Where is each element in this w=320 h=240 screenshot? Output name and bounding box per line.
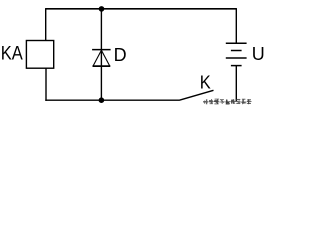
node bottom junction [99,97,105,103]
battery U [226,43,247,65]
wire right vertical lower [235,66,237,102]
watermark text [203,99,251,104]
svg-text:K: K [200,72,211,92]
wire left vertical upper [45,8,47,41]
wire top horizontal [46,8,237,10]
relay coil KA [26,41,53,69]
diode D [92,50,111,67]
wire left vertical lower [45,68,47,101]
switch K blade [179,90,214,100]
wire middle vertical (diode branch) [100,9,102,100]
node top junction [99,6,105,12]
svg-text:D: D [114,45,127,65]
svg-text:U: U [252,43,265,64]
wire bottom horizontal [45,99,179,101]
wire right vertical upper [235,8,237,43]
svg-text:KA: KA [1,43,24,65]
